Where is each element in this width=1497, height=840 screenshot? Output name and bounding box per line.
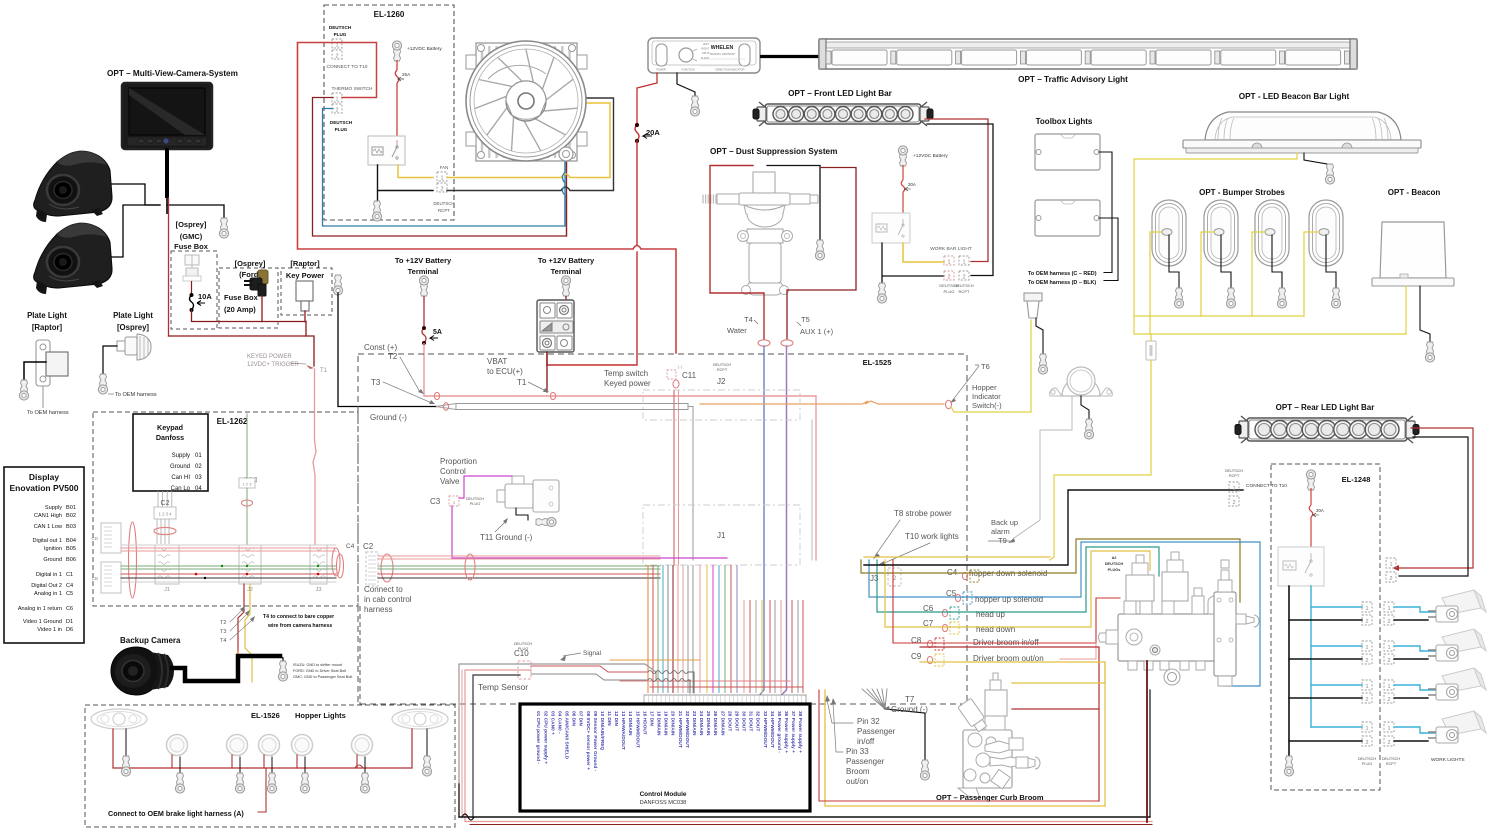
svg-text:22 HPWM/DOUT: 22 HPWM/DOUT [684, 711, 690, 748]
svg-text:07 DIN: 07 DIN [578, 711, 584, 726]
wire bus green pair [378, 565, 660, 567]
svg-text:20 DIN/AIN: 20 DIN/AIN [670, 711, 676, 736]
hopper round light 2 [227, 735, 248, 756]
svg-text:11 DIN: 11 DIN [606, 711, 612, 726]
wire blue branch 1 [1311, 606, 1362, 608]
ring terminal hopper 4 [300, 773, 309, 793]
connector plug pin 2 [332, 50, 342, 59]
svg-text:DEUTSCH: DEUTSCH [954, 283, 973, 288]
connector C2 left [366, 552, 378, 586]
bumper strobe 1 [1152, 200, 1186, 266]
svg-text:T1: T1 [517, 378, 527, 387]
temp sensor salmon wire [465, 670, 531, 821]
svg-text:C2: C2 [363, 542, 374, 551]
wire monitor video cable [165, 148, 169, 198]
svg-text:DEUTSCH: DEUTSCH [466, 497, 485, 501]
wire yellow tap drop [245, 584, 252, 682]
terminal oval T2 [434, 392, 439, 399]
svg-text:in cab control: in cab control [364, 595, 412, 604]
wires C2 to J1 [156, 519, 158, 544]
svg-text:(20 Amp): (20 Amp) [224, 305, 256, 314]
wire relay yellow out [398, 165, 433, 178]
temp sensor red wire [531, 666, 648, 672]
front LED light bar [753, 102, 933, 126]
wire bundle colored verticals right [706, 565, 708, 693]
wire red hopper bus [113, 729, 412, 768]
work light 4 [1428, 711, 1486, 743]
svg-text:2: 2 [1387, 697, 1390, 703]
ring terminal monitor ground [219, 218, 228, 238]
wire monitor cable thin [166, 196, 168, 214]
svg-text:[Osprey]: [Osprey] [235, 259, 266, 268]
hopper indicator switch (push button) [1024, 293, 1042, 318]
wire black hop [561, 187, 570, 191]
svg-text:1 2 3 4: 1 2 3 4 [159, 512, 172, 517]
wire toolbox2 [1099, 218, 1118, 281]
svg-text:C11: C11 [682, 371, 697, 380]
wire 1262 bus salmon pair [121, 547, 336, 549]
wire black light 5 drop [364, 757, 366, 773]
wire red pump loop [710, 166, 764, 340]
wire camera ground thin [280, 656, 283, 661]
connector pair rcpt 1 [1384, 602, 1394, 612]
beacon body [1372, 222, 1454, 286]
svg-text:PLUG: PLUG [470, 502, 480, 506]
wire yellow broom out to curb [920, 662, 1105, 683]
svg-text:OPT - Bumper Strobes: OPT - Bumper Strobes [1199, 188, 1285, 197]
wire blue thermo2 to fan sensor [323, 109, 566, 227]
ground bus pair [456, 403, 688, 405]
svg-text:26 DIN/AIN: 26 DIN/AIN [712, 711, 718, 736]
svg-text:THERMO SWITCH: THERMO SWITCH [331, 86, 373, 92]
cable ellipse C2 keypad [154, 527, 176, 534]
svg-text:to ECU(+): to ECU(+) [487, 367, 523, 376]
svg-text:RCPT: RCPT [1386, 762, 1397, 766]
svg-text:D1: D1 [66, 619, 73, 625]
wire black worklight 2 [1394, 658, 1428, 660]
wire blue worklight 3 [1394, 685, 1440, 690]
wire red C11 pair down [673, 390, 675, 565]
wire yellow T6 to switch [951, 320, 1031, 412]
svg-text:WORK LIGHTS: WORK LIGHTS [1431, 757, 1465, 763]
svg-text:30A: 30A [1316, 508, 1324, 513]
svg-text:Proportion: Proportion [440, 457, 477, 466]
svg-text:OPT – Front LED Light Bar: OPT – Front LED Light Bar [788, 89, 893, 98]
cable ellipse mid [465, 554, 475, 580]
wire 1262 bus gray [121, 544, 336, 546]
wire red light 3 drop [263, 755, 265, 768]
svg-text:Valve: Valve [440, 477, 460, 486]
svg-text:Pin 33: Pin 33 [846, 747, 869, 756]
hop on red bus [355, 765, 363, 768]
svg-text:VBAT: VBAT [487, 357, 507, 366]
svg-text:09 Sensor Power Ground -: 09 Sensor Power Ground - [592, 711, 598, 772]
svg-text:To +12V Battery: To +12V Battery [538, 256, 595, 265]
wire yellow strobe 4 tap [1304, 232, 1319, 316]
svg-text:J3: J3 [870, 574, 879, 583]
svg-text:10A: 10A [198, 292, 212, 301]
wire black to ring (EL-1260) [377, 191, 379, 202]
svg-text:hopper up solenoid: hopper up solenoid [975, 595, 1043, 604]
svg-text:in/off: in/off [857, 737, 875, 746]
svg-text:Digital Out 2: Digital Out 2 [31, 583, 62, 589]
wire salmon const bus [424, 395, 816, 397]
svg-text:J1: J1 [717, 531, 726, 540]
cable ellipse left [129, 522, 137, 598]
wire blue worklight 2 [1394, 646, 1440, 651]
svg-text:2: 2 [1232, 500, 1235, 506]
svg-text:1: 1 [1387, 726, 1390, 732]
svg-text:A2: A2 [1112, 556, 1117, 560]
svg-text:C6: C6 [66, 606, 73, 612]
svg-text:OPT – Passenger Curb Broom: OPT – Passenger Curb Broom [936, 793, 1044, 802]
wire keyed power to T1 [306, 336, 314, 366]
wire fuse to 10A [191, 281, 193, 295]
ring terminal plate raptor [19, 380, 28, 400]
wire red distribution upper [620, 680, 790, 682]
svg-text:2: 2 [962, 275, 965, 281]
Raptor key power box (dashed) [281, 268, 332, 315]
svg-text:Key Power: Key Power [286, 271, 324, 280]
svg-text:EL-1526: EL-1526 [251, 711, 280, 720]
hopper round light 1 [167, 735, 188, 756]
svg-text:Hopper: Hopper [972, 383, 997, 392]
wire battery to 30A (work bar) [902, 165, 904, 180]
wire black alarm ground [1081, 396, 1089, 419]
ring terminal strobe 2 [1226, 288, 1235, 308]
svg-text:T3: T3 [371, 378, 381, 387]
connector work bar rcpt pin1 [959, 256, 969, 265]
fuse holder symbol in GMC box [183, 255, 201, 281]
svg-text:wire from camera harness: wire from camera harness [267, 623, 332, 629]
wire darkred bottom bus [470, 824, 1152, 826]
wire darkred thermo1 to fan sensor [313, 98, 567, 237]
svg-text:+12VDC Battery: +12VDC Battery [913, 153, 948, 159]
ring terminal +12VDC (work bar) [898, 146, 907, 166]
ring terminal plate osprey [98, 374, 107, 394]
wire fan sensor pair darkred [566, 160, 568, 171]
connector pair plug 1 [1362, 602, 1372, 612]
svg-text:DEUTSCH: DEUTSCH [713, 363, 732, 367]
toolbox light 1 [1035, 134, 1100, 170]
wire black oval right [426, 729, 428, 756]
wire black worklight 1 [1394, 619, 1428, 621]
wire Ford fuse output [261, 296, 263, 322]
wire yellow head down [885, 551, 1150, 627]
svg-text:D6: D6 [66, 627, 73, 633]
svg-text:PLUG: PLUG [334, 32, 347, 37]
temp sensor black lower [458, 784, 460, 817]
wire salmon hop at 20A crossing [633, 246, 641, 250]
svg-text:30 DOUT: 30 DOUT [741, 711, 747, 731]
svg-text:1: 1 [1232, 486, 1235, 492]
svg-text:B02: B02 [66, 513, 76, 519]
svg-text:2: 2 [1387, 619, 1390, 625]
key power plug [296, 281, 313, 301]
ring terminal T7 [920, 760, 929, 780]
wire yellow feed down [1150, 334, 1152, 341]
svg-text:T4: T4 [220, 638, 226, 644]
svg-text:1: 1 [335, 97, 338, 103]
svg-text:1: 1 [1387, 645, 1390, 651]
connector FAN pin 2 [437, 183, 447, 192]
ring terminal oval left [121, 756, 130, 776]
wire monitor ground to ring [167, 205, 224, 218]
wire bus salmon pair [378, 555, 660, 557]
svg-text:Temp switch: Temp switch [604, 369, 648, 378]
wire T7 to ring [885, 709, 925, 760]
svg-text:DEUTSCH: DEUTSCH [433, 201, 454, 206]
svg-text:RCPT: RCPT [959, 289, 970, 294]
wire black branch 4 [1289, 740, 1362, 742]
wire yellow beacon bar [1134, 153, 1406, 334]
wire 5A to const bus [423, 343, 425, 396]
svg-text:Signal: Signal [583, 650, 602, 657]
wire black oval left [125, 729, 127, 756]
wire plate osprey [103, 346, 117, 374]
svg-text:38 Power supply +: 38 Power supply + [797, 711, 803, 753]
wire whelen red power [637, 73, 657, 125]
connector pair rcpt 2 [1384, 641, 1394, 651]
svg-text:2: 2 [335, 54, 338, 60]
svg-text:2: 2 [335, 108, 338, 114]
connector C11 symbol [667, 370, 676, 379]
svg-text:PLUG: PLUG [944, 289, 955, 294]
connector C4 symbol [962, 572, 967, 579]
svg-text:FORD: GND to Driver Seat Bolt: FORD: GND to Driver Seat Bolt [293, 669, 347, 673]
svg-text:[Raptor]: [Raptor] [32, 323, 63, 332]
wire 1262 bus gray2 [121, 581, 336, 583]
svg-text:Danfoss: Danfoss [156, 433, 184, 442]
svg-text:Video 1 in: Video 1 in [37, 627, 62, 633]
wire ground ring to bus [338, 293, 436, 407]
wire khaki hopper down [861, 539, 1240, 602]
connector block J2 (EL-1262) [239, 545, 261, 584]
svg-text:1: 1 [1387, 606, 1390, 612]
dust suppression pump [703, 172, 818, 295]
wire magenta C3 down [452, 506, 727, 558]
svg-text:34 HPWM/DOUT: 34 HPWM/DOUT [769, 711, 775, 748]
svg-text:03: 03 [195, 475, 202, 481]
wire battery1 to 5A [423, 296, 425, 328]
svg-text:T4: T4 [744, 315, 753, 324]
svg-text:35 Power ground -: 35 Power ground - [776, 711, 782, 753]
proportional valve drawing [497, 476, 559, 512]
keypad Danfoss box [133, 414, 208, 491]
svg-text:DEUTSCH: DEUTSCH [330, 120, 353, 125]
svg-text:21 HPWM/DOUT: 21 HPWM/DOUT [677, 711, 683, 748]
svg-text:Indicator: Indicator [972, 392, 1001, 401]
wire black curb broom [1149, 690, 1151, 817]
svg-text:OPT - LED Beacon Bar Light: OPT - LED Beacon Bar Light [1239, 92, 1350, 101]
wire whelen to traffic bar (thick) [760, 55, 819, 58]
plate light raptor bracket [36, 340, 68, 386]
ring terminal near key power [333, 275, 342, 295]
svg-text:06 DIN: 06 DIN [571, 711, 577, 726]
wire plate raptor [24, 362, 46, 380]
svg-text:25 DIN/AIN: 25 DIN/AIN [705, 711, 711, 736]
wire 1262 bus black [121, 577, 336, 579]
connector C6 symbol [942, 609, 947, 616]
wire salmon to C11 drop [641, 249, 676, 353]
svg-text:GMC: GND to Passenger Seat Bol: GMC: GND to Passenger Seat Bolt [293, 675, 353, 679]
svg-text:25A: 25A [402, 72, 411, 77]
svg-text:OPT – Rear LED Light Bar: OPT – Rear LED Light Bar [1276, 403, 1375, 412]
LED beacon bar light [1183, 112, 1421, 153]
svg-text:T2: T2 [388, 352, 398, 361]
wire black strobe 4 [1326, 235, 1336, 288]
work light 1 [1428, 590, 1486, 622]
connector T10 pin2 [1229, 496, 1239, 506]
monitor multi-view display [122, 83, 212, 149]
ring terminal strobe 1 [1174, 288, 1183, 308]
svg-text:Video 1 Ground: Video 1 Ground [23, 619, 62, 625]
EL-1260 box (dashed) [324, 5, 454, 220]
svg-text:2: 2 [1387, 740, 1390, 746]
wire red front bar feed [925, 119, 988, 262]
wire salmon bottom bus [465, 821, 1152, 823]
connector pair rcpt 3 [1384, 680, 1394, 690]
wire black light 4 drop [304, 757, 306, 773]
wire blue branch 2 [1311, 645, 1362, 647]
ring terminal T11 (angled) [536, 517, 556, 526]
ring terminal pump ground [815, 240, 824, 260]
svg-text:2: 2 [1365, 740, 1368, 746]
svg-text:Hopper Lights: Hopper Lights [295, 711, 346, 720]
ring terminal hopper 1 [175, 773, 184, 793]
svg-text:Switch(-): Switch(-) [972, 401, 1002, 410]
svg-text:15 HPWM/DOUT: 15 HPWM/DOUT [634, 711, 640, 748]
wire darkred aux T5 [787, 168, 856, 340]
wire blue worklight 4 [1394, 727, 1440, 733]
wire 1262 bus green pair [121, 565, 336, 567]
svg-text:C9: C9 [911, 652, 922, 661]
svg-text:Ignition: Ignition [44, 546, 62, 552]
dashed edge camera section [359, 606, 361, 705]
cable ellipse j3 [332, 548, 340, 576]
svg-text:1: 1 [962, 260, 965, 266]
svg-text:OPT – Traffic Advisory Light: OPT – Traffic Advisory Light [1018, 75, 1128, 84]
ring terminal hopper 2 [235, 773, 244, 793]
wire yellow curb loop [1104, 662, 1106, 806]
svg-text:[Osprey]: [Osprey] [117, 323, 149, 332]
cable ellipse c4b [337, 554, 344, 578]
svg-text:Connect to OEM brake light har: Connect to OEM brake light harness (A) [108, 809, 244, 818]
svg-text:1: 1 [947, 260, 950, 266]
wire yellow strobe 3 tap [1252, 232, 1265, 316]
ring terminal battery 2 [561, 276, 570, 296]
svg-text:Water: Water [727, 326, 747, 335]
wire bundle far right drops [743, 600, 745, 693]
ring terminal +12VDC battery (EL-1260) [392, 41, 401, 61]
connector pair plug 2 [1362, 641, 1372, 651]
wire blue branch 4 [1311, 726, 1362, 728]
wire black beacon bar [1304, 153, 1327, 164]
svg-text:EL-1248: EL-1248 [1342, 475, 1371, 484]
svg-text:08 5VDC+ sensor power +: 08 5VDC+ sensor power + [585, 711, 591, 770]
wire salmon bus drop [815, 396, 817, 560]
svg-text:T4 to connect to bare copper: T4 to connect to bare copper [263, 614, 334, 620]
svg-text:DEUTSCH: DEUTSCH [514, 642, 533, 646]
wire salmon manifold [1060, 643, 1096, 659]
svg-text:2: 2 [1387, 658, 1390, 664]
wire red light 2 drop [231, 755, 233, 768]
junction dots bus [195, 573, 198, 576]
wire black light 3 drop [271, 757, 273, 773]
wire gray bus drop [688, 407, 693, 561]
svg-text:RIGHT: RIGHT [701, 48, 709, 51]
svg-text:14 DIN/AIN: 14 DIN/AIN [627, 711, 633, 736]
wire blue branch 3 [1311, 684, 1362, 686]
wire red driver broom in [893, 560, 1120, 643]
svg-text:02: 02 [195, 464, 202, 470]
svg-text:EL-1525: EL-1525 [863, 358, 892, 367]
svg-text:C3: C3 [430, 497, 441, 506]
svg-text:Control: Control [440, 467, 466, 476]
svg-text:(-): (-) [678, 364, 683, 369]
fuse 10A symbol [190, 295, 194, 310]
hydraulic manifold block [1099, 552, 1260, 686]
svg-text:"TRAFFIC ADVISOR": "TRAFFIC ADVISOR" [708, 52, 735, 56]
svg-text:01: 01 [195, 453, 202, 459]
svg-text:Keyed power: Keyed power [604, 379, 651, 388]
svg-text:Fuse Box: Fuse Box [174, 242, 209, 251]
svg-text:DIRECTION INDICATOR: DIRECTION INDICATOR [715, 68, 744, 72]
svg-text:Keypad: Keypad [157, 423, 183, 432]
wire VBAT to T1 oval [546, 365, 548, 392]
wire 25A to relay [396, 83, 398, 136]
svg-text:RCPT: RCPT [1229, 474, 1240, 478]
wire darkred manifold drain [1146, 661, 1148, 822]
connector thermo pin 2 [332, 104, 342, 113]
bumper strobe 4 [1309, 200, 1343, 266]
svg-text:C4: C4 [346, 543, 355, 550]
svg-text:31 DOUT: 31 DOUT [748, 711, 754, 731]
wire yellow fan feed [447, 177, 561, 179]
ring terminal camera ground [278, 661, 287, 681]
svg-text:To OEM harness (D – BLK): To OEM harness (D – BLK) [1028, 280, 1096, 286]
svg-text:PLUGs: PLUGs [1108, 568, 1121, 572]
temp sensor gray loop [459, 664, 656, 784]
wire yellow hop [561, 174, 570, 178]
circuit breaker [537, 300, 574, 352]
wire keyed power junction [169, 322, 307, 337]
cable ellipse C2 [381, 554, 393, 582]
svg-text:head down: head down [976, 625, 1015, 634]
svg-text:C2: C2 [161, 500, 170, 507]
svg-text:(GMC): (GMC) [180, 232, 203, 241]
relay internals (EL-1260) [372, 140, 398, 159]
svg-text:DANFOSS MC038: DANFOSS MC038 [640, 800, 687, 806]
svg-text:FUNCTION: FUNCTION [681, 68, 695, 72]
svg-text:To +12V Battery: To +12V Battery [395, 256, 452, 265]
svg-text:EL-1262: EL-1262 [217, 417, 248, 426]
wire black front bar [927, 124, 993, 276]
bumper strobe 3 [1255, 200, 1289, 266]
display Enovation PV500 box [4, 467, 84, 643]
svg-text:ISUZU: GND to shifter mount: ISUZU: GND to shifter mount [293, 663, 343, 667]
connector block J2 outline [643, 390, 800, 420]
svg-text:T8 strobe power: T8 strobe power [894, 509, 952, 518]
connector work bar rcpt pin2 [959, 271, 969, 280]
hopper round light 3 [259, 735, 280, 756]
terminal oval T1 [550, 392, 555, 399]
wire blue T4 water down [757, 346, 764, 698]
backup camera [111, 647, 174, 695]
rear LED light bar [1235, 416, 1419, 443]
svg-text:Fuse Box: Fuse Box [224, 293, 259, 302]
connector plug pin 1 (connect to T10) [332, 39, 342, 48]
